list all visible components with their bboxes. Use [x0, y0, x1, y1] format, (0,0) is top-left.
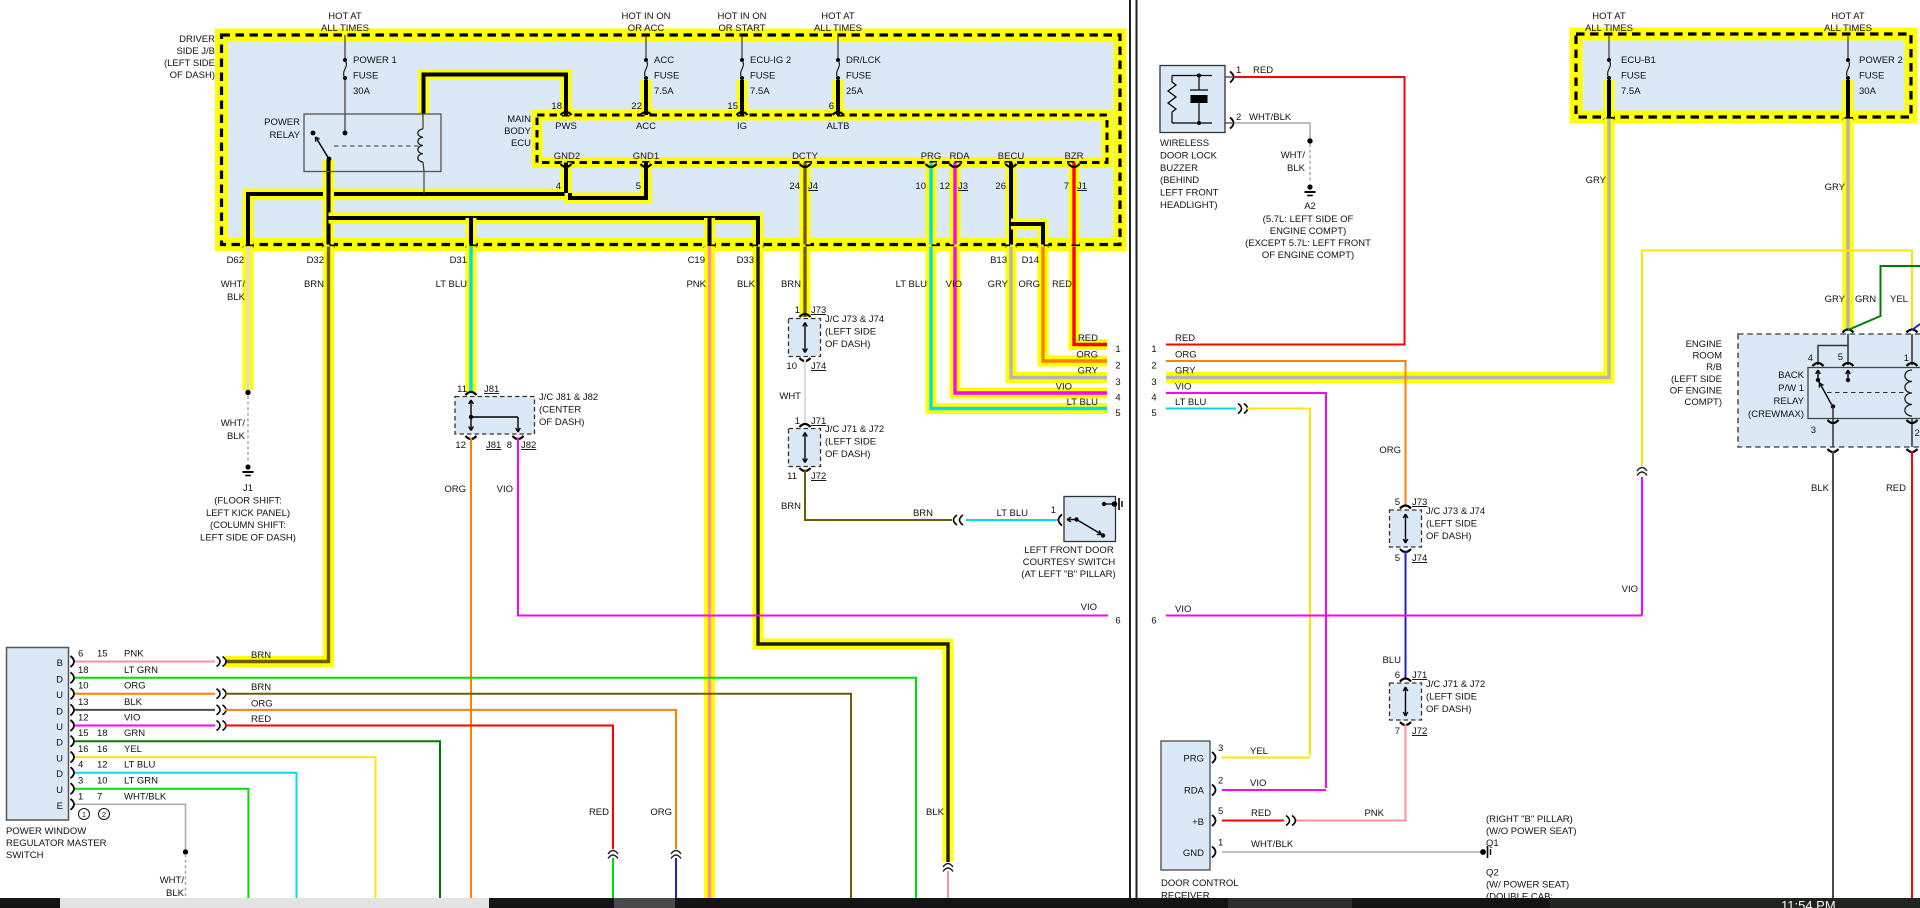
svg-text:RED: RED — [1253, 65, 1273, 76]
wire LT GRN pin18 — [75, 678, 916, 898]
svg-text:WIRELESS: WIRELESS — [1160, 138, 1209, 149]
pin 7 J72 — [1400, 722, 1411, 725]
wire VIO from RDA — [1222, 789, 1326, 791]
wire DR/LCK fuse to ECU pin 6 — [833, 80, 844, 115]
wire BZR RED to page edge — [1074, 247, 1107, 345]
svg-text:OF DASH): OF DASH) — [170, 70, 215, 81]
chevron splice on BLK wire — [943, 864, 953, 872]
svg-text:11: 11 — [457, 384, 467, 395]
svg-text:6: 6 — [1151, 616, 1156, 627]
svg-text:2: 2 — [1218, 776, 1223, 787]
svg-text:ENGINE: ENGINE — [1686, 339, 1722, 350]
svg-text:BLK: BLK — [1811, 483, 1830, 494]
pin 12 RDA — [950, 164, 961, 167]
svg-text:4: 4 — [1808, 353, 1813, 364]
svg-text:8: 8 — [507, 440, 512, 451]
J71 internal bus right — [1405, 687, 1407, 716]
connector VIO to RED — [217, 721, 221, 731]
wire coil feed to ECU pin 18 PWS — [424, 75, 567, 116]
pin E master switch — [71, 799, 75, 810]
pin 3 relay — [1828, 420, 1839, 423]
svg-text:J81: J81 — [486, 440, 501, 451]
svg-text:Q1: Q1 — [1486, 838, 1499, 849]
svg-text:HOT IN ON: HOT IN ON — [622, 11, 671, 22]
svg-text:ALL TIMES: ALL TIMES — [814, 23, 862, 34]
svg-text:RDA: RDA — [1184, 786, 1205, 797]
wire VIO from J82 pin8 — [518, 438, 1108, 616]
relay linkage dashed — [334, 145, 420, 147]
svg-text:BLK: BLK — [124, 697, 143, 708]
wire RED buzzer to line 1 — [1166, 77, 1405, 345]
svg-text:J82: J82 — [521, 440, 536, 451]
svg-text:LEFT FRONT: LEFT FRONT — [1160, 188, 1219, 199]
wire VIO pin12 — [75, 725, 215, 727]
wire GRY from ECU-B1 to page edge — [1166, 119, 1609, 378]
pin 24 DCTY — [800, 164, 811, 167]
pin U master switch — [71, 752, 75, 763]
svg-text:(LEFT SIDE: (LEFT SIDE — [825, 327, 876, 338]
svg-text:DOOR CONTROL: DOOR CONTROL — [1161, 878, 1239, 889]
wire WHT/BLK dashed to A2 — [1309, 144, 1311, 182]
wire LT BLU pin4 — [75, 773, 297, 898]
wire PRG pin10 — [926, 163, 937, 245]
wire BECU pin26 to B13 and D14 — [1006, 163, 1017, 245]
svg-text:5: 5 — [1218, 806, 1223, 817]
svg-text:GRN: GRN — [124, 728, 145, 739]
svg-text:OF DASH): OF DASH) — [539, 417, 584, 428]
wire WHT/BLK buzzer pin2 — [1234, 123, 1310, 139]
svg-text:(W/O POWER SEAT): (W/O POWER SEAT) — [1486, 826, 1577, 837]
wire C19 PNK — [704, 247, 715, 899]
main body ECU box U1 — [537, 115, 1107, 163]
wire VIO line 6 — [1166, 615, 1642, 617]
svg-text:ORG: ORG — [1076, 350, 1098, 361]
wire BLU J74 to J71 — [1405, 551, 1407, 680]
wire D14 ORG to page edge — [1043, 247, 1107, 362]
svg-text:DRIVER: DRIVER — [179, 34, 215, 45]
svg-text:ORG: ORG — [251, 698, 273, 709]
chevron splice ORG to BLU — [671, 851, 681, 859]
svg-text:J/C J81 & J82: J/C J81 & J82 — [539, 392, 598, 403]
svg-text:5: 5 — [1395, 553, 1400, 564]
svg-text:ALTB: ALTB — [826, 121, 849, 132]
svg-text:OR ACC: OR ACC — [628, 23, 665, 34]
svg-text:E: E — [57, 801, 63, 812]
wire branch to C19 — [704, 218, 715, 245]
svg-text:1: 1 — [1151, 344, 1156, 355]
engine compartment J/B box right page — [1576, 34, 1911, 117]
connector LT BLU to YEL — [1238, 404, 1242, 414]
svg-text:18: 18 — [551, 101, 562, 112]
pin 1 buzzer — [1225, 76, 1232, 78]
pin D31 — [466, 247, 477, 250]
svg-text:OF ENGINE COMPT): OF ENGINE COMPT) — [1262, 250, 1354, 261]
pin D62 — [243, 247, 254, 250]
pin ECU-B1 output — [1604, 119, 1615, 122]
pin 2 relay — [1907, 420, 1918, 423]
svg-text:HOT AT: HOT AT — [328, 11, 362, 22]
svg-text:J72: J72 — [1412, 726, 1427, 737]
wire DCTY BRN to J73 — [800, 247, 811, 318]
svg-text:J/C J73 & J74: J/C J73 & J74 — [825, 314, 884, 325]
svg-text:PNK: PNK — [686, 279, 706, 290]
pin B master switch — [71, 656, 75, 667]
svg-text:(AT LEFT "B" PILLAR): (AT LEFT "B" PILLAR) — [1021, 569, 1115, 580]
svg-text:VIO: VIO — [1081, 602, 1097, 613]
svg-text:LT BLU: LT BLU — [124, 760, 155, 771]
wire GRN to relay entry — [1848, 266, 1920, 330]
svg-text:1: 1 — [1051, 505, 1056, 516]
svg-text:LT BLU: LT BLU — [1067, 397, 1098, 408]
svg-text:11: 11 — [787, 471, 797, 482]
svg-text:GRY: GRY — [1175, 366, 1196, 377]
wire fuse to relay — [344, 80, 346, 133]
power relay K1 — [304, 114, 441, 172]
svg-text:WHT/: WHT/ — [160, 875, 185, 886]
svg-text:12: 12 — [78, 713, 89, 724]
svg-text:POWER WINDOW: POWER WINDOW — [6, 826, 86, 837]
svg-text:ECU: ECU — [511, 138, 531, 149]
svg-text:3: 3 — [1218, 743, 1223, 754]
wire GRN pin15 — [75, 741, 440, 898]
pin 3 PRG receiver — [1212, 752, 1216, 763]
pin 2 buzzer — [1225, 122, 1232, 124]
wire PNK from master switch — [75, 661, 215, 663]
svg-text:BRN: BRN — [781, 501, 801, 512]
pin relay box bottom 2 — [1907, 449, 1918, 452]
svg-text:WHT/BLK: WHT/BLK — [1251, 839, 1294, 850]
svg-text:BRN: BRN — [251, 682, 271, 693]
svg-text:(LEFT SIDE: (LEFT SIDE — [164, 58, 215, 69]
svg-text:LT GRN: LT GRN — [124, 776, 158, 787]
pin 18 PWS — [561, 112, 572, 115]
wire PNK below chevron — [947, 871, 949, 898]
svg-text:GRY: GRY — [988, 279, 1009, 290]
power window regulator master switch SW1 — [7, 648, 69, 821]
svg-text:J/C J71 & J72: J/C J71 & J72 — [825, 424, 884, 435]
svg-text:VIO: VIO — [1056, 382, 1072, 393]
svg-text:HOT IN ON: HOT IN ON — [718, 11, 767, 22]
svg-text:OR START: OR START — [718, 23, 765, 34]
svg-text:WHT: WHT — [779, 391, 801, 402]
svg-text:J81: J81 — [484, 384, 499, 395]
svg-text:WHT/BLK: WHT/BLK — [1249, 112, 1292, 123]
svg-text:(FLOOR SHIFT:: (FLOOR SHIFT: — [214, 496, 282, 507]
svg-text:FUSE: FUSE — [654, 71, 679, 82]
svg-text:6: 6 — [1395, 670, 1400, 681]
svg-text:2: 2 — [1915, 428, 1920, 439]
svg-text:ECU-IG 2: ECU-IG 2 — [750, 55, 791, 66]
fuse ECU-IG 2 7.5A feed — [741, 35, 743, 58]
wire LT BLU to courtesy switch — [966, 519, 1058, 521]
junction connector J71/J72 box left — [789, 429, 821, 467]
relay switch arm — [317, 139, 330, 160]
svg-text:2: 2 — [1151, 361, 1156, 372]
node splice WHT/BLK — [183, 849, 188, 854]
svg-text:(LEFT SIDE: (LEFT SIDE — [1671, 374, 1722, 385]
svg-text:FUSE: FUSE — [1621, 71, 1646, 82]
wire ORG continuation — [225, 710, 676, 849]
svg-text:U: U — [56, 754, 63, 765]
wire ACC fuse to ECU pin 22 — [641, 80, 652, 115]
J73 internal bus right — [1405, 514, 1407, 543]
svg-text:LT BLU: LT BLU — [896, 279, 927, 290]
svg-text:GRY: GRY — [1825, 294, 1846, 305]
svg-text:FUSE: FUSE — [846, 71, 871, 82]
taskbar — [0, 898, 1920, 908]
svg-text:BLK: BLK — [166, 888, 185, 899]
wire B13 GRY to page edge — [1011, 247, 1107, 378]
wire D31 LT BLU to J81 — [466, 247, 477, 393]
wire bus to D33 — [329, 218, 759, 245]
svg-text:6: 6 — [829, 101, 834, 112]
svg-text:10: 10 — [78, 681, 89, 692]
fuse DR/LCK 25A feed — [837, 35, 839, 58]
svg-text:(5.7L: LEFT SIDE OF: (5.7L: LEFT SIDE OF — [1263, 214, 1354, 225]
wire pin 3 stub — [1832, 407, 1834, 419]
svg-text:D32: D32 — [307, 255, 324, 266]
wire BLU below chevron — [675, 858, 677, 898]
svg-text:FUSE: FUSE — [750, 71, 775, 82]
wire ORG pin10 — [75, 693, 215, 695]
svg-text:J1: J1 — [243, 483, 253, 494]
wire PRG LT BLU to page edge — [931, 247, 1107, 409]
svg-text:BLK: BLK — [926, 807, 945, 818]
pin 5 relay — [1843, 363, 1854, 366]
svg-text:D: D — [56, 706, 63, 717]
svg-text:ECU-B1: ECU-B1 — [1621, 55, 1656, 66]
svg-text:D31: D31 — [450, 255, 467, 266]
wire PNK from J72 to +B — [1294, 724, 1406, 821]
pin D master switch — [71, 672, 75, 683]
svg-text:RED: RED — [1078, 333, 1098, 344]
left front door courtesy switch S1 — [1064, 497, 1116, 542]
fuse ECU-B1 7.5A feed — [1608, 34, 1610, 58]
svg-text:(W/ POWER SEAT): (W/ POWER SEAT) — [1486, 880, 1569, 891]
svg-text:RED: RED — [589, 807, 609, 818]
svg-text:+B: +B — [1192, 817, 1204, 828]
svg-text:J1: J1 — [1077, 181, 1087, 192]
wire D32 BRN to master switch — [225, 247, 329, 662]
svg-text:RED: RED — [1886, 483, 1906, 494]
svg-text:1: 1 — [1115, 344, 1120, 355]
relay contact pin 5 — [1847, 371, 1849, 380]
wire WHT/BLK pin1 — [75, 804, 186, 850]
wire BRN continuation — [225, 694, 851, 898]
junction connector J71/J72 box right — [1390, 683, 1422, 720]
pin U master switch — [71, 783, 75, 794]
wire RDA pin12 J3 — [950, 163, 961, 245]
driver side J/B box — [222, 35, 1121, 245]
svg-text:13: 13 — [78, 697, 89, 708]
svg-text:OF DASH): OF DASH) — [825, 339, 870, 350]
wire WHT J74 to J71 — [804, 360, 806, 424]
svg-text:LT BLU: LT BLU — [436, 279, 467, 290]
svg-text:J3: J3 — [958, 181, 968, 192]
svg-text:YEL: YEL — [1250, 746, 1268, 757]
svg-text:SIDE J/B: SIDE J/B — [176, 46, 215, 57]
svg-text:OF DASH): OF DASH) — [1426, 704, 1471, 715]
svg-text:POWER 2: POWER 2 — [1859, 55, 1903, 66]
svg-text:VIO: VIO — [124, 713, 140, 724]
courtesy switch case ground — [1102, 502, 1106, 506]
svg-text:2: 2 — [1236, 112, 1241, 123]
pin 5 GND1 — [641, 164, 652, 167]
relay coil L1 — [418, 129, 423, 162]
svg-text:GRN: GRN — [1855, 294, 1876, 305]
svg-text:R/B: R/B — [1706, 362, 1722, 373]
svg-text:HEADLIGHT): HEADLIGHT) — [1160, 200, 1218, 211]
pin 1 courtesy switch — [1059, 515, 1063, 526]
page divider lines — [1129, 0, 1138, 898]
svg-text:(LEFT SIDE: (LEFT SIDE — [825, 437, 876, 448]
svg-text:J74: J74 — [811, 361, 826, 372]
svg-text:10: 10 — [915, 181, 926, 192]
svg-text:HOT AT: HOT AT — [1831, 11, 1865, 22]
svg-text:1: 1 — [1236, 65, 1241, 76]
pin B13 — [1006, 247, 1017, 250]
svg-text:7.5A: 7.5A — [654, 86, 674, 97]
svg-text:VIO: VIO — [1250, 778, 1266, 789]
svg-text:7: 7 — [1064, 181, 1069, 192]
svg-text:DCTY: DCTY — [792, 151, 819, 162]
svg-text:3: 3 — [1115, 377, 1120, 388]
svg-text:1: 1 — [1218, 838, 1223, 849]
svg-text:4: 4 — [1151, 393, 1156, 404]
junction connector J73/J74 box right — [1390, 510, 1422, 547]
svg-text:YEL: YEL — [1890, 294, 1908, 305]
wire relay coil to GND line — [423, 172, 425, 195]
svg-text:OF ENGINE: OF ENGINE — [1670, 385, 1722, 396]
svg-text:VIO: VIO — [497, 484, 513, 495]
svg-text:6: 6 — [1115, 616, 1120, 627]
svg-text:ORG: ORG — [1018, 279, 1040, 290]
svg-text:DR/LCK: DR/LCK — [846, 55, 882, 66]
svg-text:ORG: ORG — [650, 807, 672, 818]
svg-text:J74: J74 — [1412, 553, 1427, 564]
wire D62 WHT/BLK — [243, 247, 254, 391]
svg-text:YEL: YEL — [124, 744, 142, 755]
svg-text:U: U — [56, 785, 63, 796]
svg-text:BECU: BECU — [998, 151, 1025, 162]
svg-text:BLK: BLK — [227, 431, 246, 442]
svg-text:7.5A: 7.5A — [1621, 86, 1641, 97]
wire ORG line 2 to J73 — [1166, 361, 1406, 507]
pin 2 RDA receiver — [1212, 785, 1216, 796]
svg-text:30A: 30A — [353, 86, 371, 97]
fuse ACC 7.5A feed — [645, 35, 647, 58]
pin 4 GND2 — [561, 164, 572, 167]
svg-text:ORG: ORG — [1379, 445, 1401, 456]
svg-text:ROOM: ROOM — [1692, 351, 1722, 362]
svg-text:6: 6 — [78, 649, 83, 660]
svg-text:GRY: GRY — [1825, 182, 1846, 193]
junction connector J73/J74 box left — [789, 319, 821, 357]
svg-text:D: D — [56, 738, 63, 749]
svg-text:26: 26 — [995, 181, 1006, 192]
node splice on WHT/BLK — [245, 390, 250, 395]
relay contact pin 4 arm — [1817, 371, 1819, 380]
svg-text:D33: D33 — [737, 255, 754, 266]
svg-text:U: U — [56, 722, 63, 733]
pin 26 BECU — [1006, 164, 1017, 167]
pin 4 relay — [1813, 363, 1824, 366]
svg-text:ENGINE COMPT): ENGINE COMPT) — [1270, 226, 1347, 237]
wire ECU-IG2 fuse to ECU pin 15 — [737, 80, 748, 115]
pin entry YEL relay box — [1907, 330, 1918, 333]
svg-text:WHT/: WHT/ — [221, 279, 246, 290]
pin D master switch — [71, 767, 75, 778]
pin 5 J73 — [1400, 506, 1411, 509]
wire GND2 pin4 to D62 — [248, 163, 566, 245]
svg-text:10: 10 — [97, 776, 108, 787]
svg-text:PWS: PWS — [555, 121, 577, 132]
pin 10 PRG — [926, 164, 937, 167]
J71 internal bus — [804, 433, 806, 463]
svg-text:RED: RED — [1175, 333, 1195, 344]
svg-text:3: 3 — [1151, 377, 1156, 388]
relay linkage dashed right — [1827, 392, 1906, 394]
svg-text:B: B — [57, 658, 63, 669]
connector RED to PNK — [1286, 816, 1290, 826]
svg-text:BZR: BZR — [1065, 151, 1084, 162]
svg-text:LEFT SIDE OF DASH): LEFT SIDE OF DASH) — [200, 532, 296, 543]
svg-text:D14: D14 — [1022, 255, 1039, 266]
svg-text:OF DASH): OF DASH) — [825, 449, 870, 460]
svg-text:LT BLU: LT BLU — [997, 508, 1028, 519]
J73 internal bus — [804, 323, 806, 353]
relay internal feed wires — [1818, 334, 1848, 365]
relay contact node — [311, 131, 316, 136]
svg-text:SWITCH: SWITCH — [6, 850, 44, 861]
svg-text:D62: D62 — [227, 255, 244, 266]
svg-text:18: 18 — [97, 728, 108, 739]
pin 1 relay — [1907, 363, 1918, 366]
courtesy switch contact arm — [1068, 519, 1077, 521]
pin 7 BZR — [1069, 164, 1080, 167]
wire LT GRN pin3 — [75, 789, 248, 898]
svg-text:10: 10 — [786, 361, 797, 372]
svg-text:16: 16 — [97, 744, 108, 755]
pin U master switch — [71, 688, 75, 699]
svg-text:ALL TIMES: ALL TIMES — [321, 23, 369, 34]
svg-text:VIO: VIO — [1622, 584, 1638, 595]
svg-text:(EXCEPT 5.7L: LEFT FRONT: (EXCEPT 5.7L: LEFT FRONT — [1245, 238, 1371, 249]
wire branch to D31 — [466, 218, 477, 245]
wire GND1 pin5 — [570, 163, 646, 199]
svg-text:(CREWMAX): (CREWMAX) — [1748, 409, 1804, 420]
pin POWER 2 output — [1843, 119, 1854, 122]
svg-text:BLK: BLK — [1287, 163, 1306, 174]
pin entry GRY relay box — [1843, 330, 1854, 333]
svg-text:VIO: VIO — [946, 279, 962, 290]
wire RDA VIO to page edge — [955, 247, 1107, 394]
svg-text:DOOR LOCK: DOOR LOCK — [1160, 150, 1218, 161]
pin 11 J81 — [466, 392, 477, 395]
svg-text:PNK: PNK — [1364, 808, 1384, 819]
svg-text:7.5A: 7.5A — [750, 86, 770, 97]
wire YEL pin16 — [75, 757, 376, 898]
svg-text:VIO: VIO — [1175, 382, 1191, 393]
wire BLK pin13 — [75, 709, 215, 711]
wire DCTY pin24 J4 — [800, 163, 811, 245]
svg-text:22: 22 — [631, 101, 642, 112]
wire GRY from POWER 2 to relay — [1843, 119, 1854, 330]
svg-text:RED: RED — [1251, 808, 1271, 819]
svg-text:24: 24 — [789, 181, 800, 192]
svg-text:16: 16 — [78, 744, 89, 755]
svg-text:FUSE: FUSE — [353, 71, 378, 82]
